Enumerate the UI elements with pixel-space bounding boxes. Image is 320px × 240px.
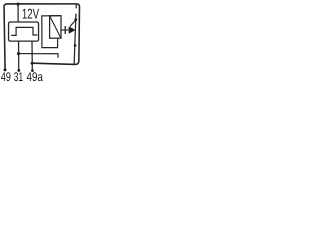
node: junction dot on right wire (74, 44, 77, 47)
diode bar (64, 26, 66, 34)
label 49 (1, 72, 10, 81)
wire outer loop: terminal 49 up left side, top bus, right side, bottom bus to 49a junction (4, 4, 79, 69)
node: bus junction dot (17, 3, 20, 6)
node: switch pivot dot (74, 18, 77, 21)
wire: loop around relay coil box (42, 16, 61, 48)
square-wave symbol inside B1 (11, 27, 37, 35)
node: 49a bottom bus junction dot (31, 62, 34, 65)
coil diagonal (50, 16, 61, 39)
terminal dot 31 (17, 69, 20, 72)
label 49a (27, 72, 43, 81)
wire: pulse box bottom to terminal 31 (18, 41, 20, 70)
relay coil box K1 (50, 16, 61, 39)
label 31 (14, 72, 23, 81)
wire: coil box to diode (61, 29, 69, 31)
node: junction dot on 31 wire (17, 52, 20, 55)
pulse generator box B1 (9, 22, 39, 41)
terminal dot 49 (4, 68, 7, 71)
wire: right vertical from bus to bottom bus (75, 4, 77, 8)
wire: right vertical lower part (74, 14, 76, 65)
wire: pulse box bottom to 49a line (31, 41, 33, 70)
diode triangle (69, 26, 76, 33)
switch blade (70, 20, 75, 26)
label 12V (23, 9, 39, 19)
wire: horizontal net y=53.6 with down stub (19, 54, 59, 58)
terminal dot 49a (31, 69, 34, 72)
wire: bus to pulse generator box top (17, 4, 19, 22)
node: cross junction dot (31, 52, 33, 54)
